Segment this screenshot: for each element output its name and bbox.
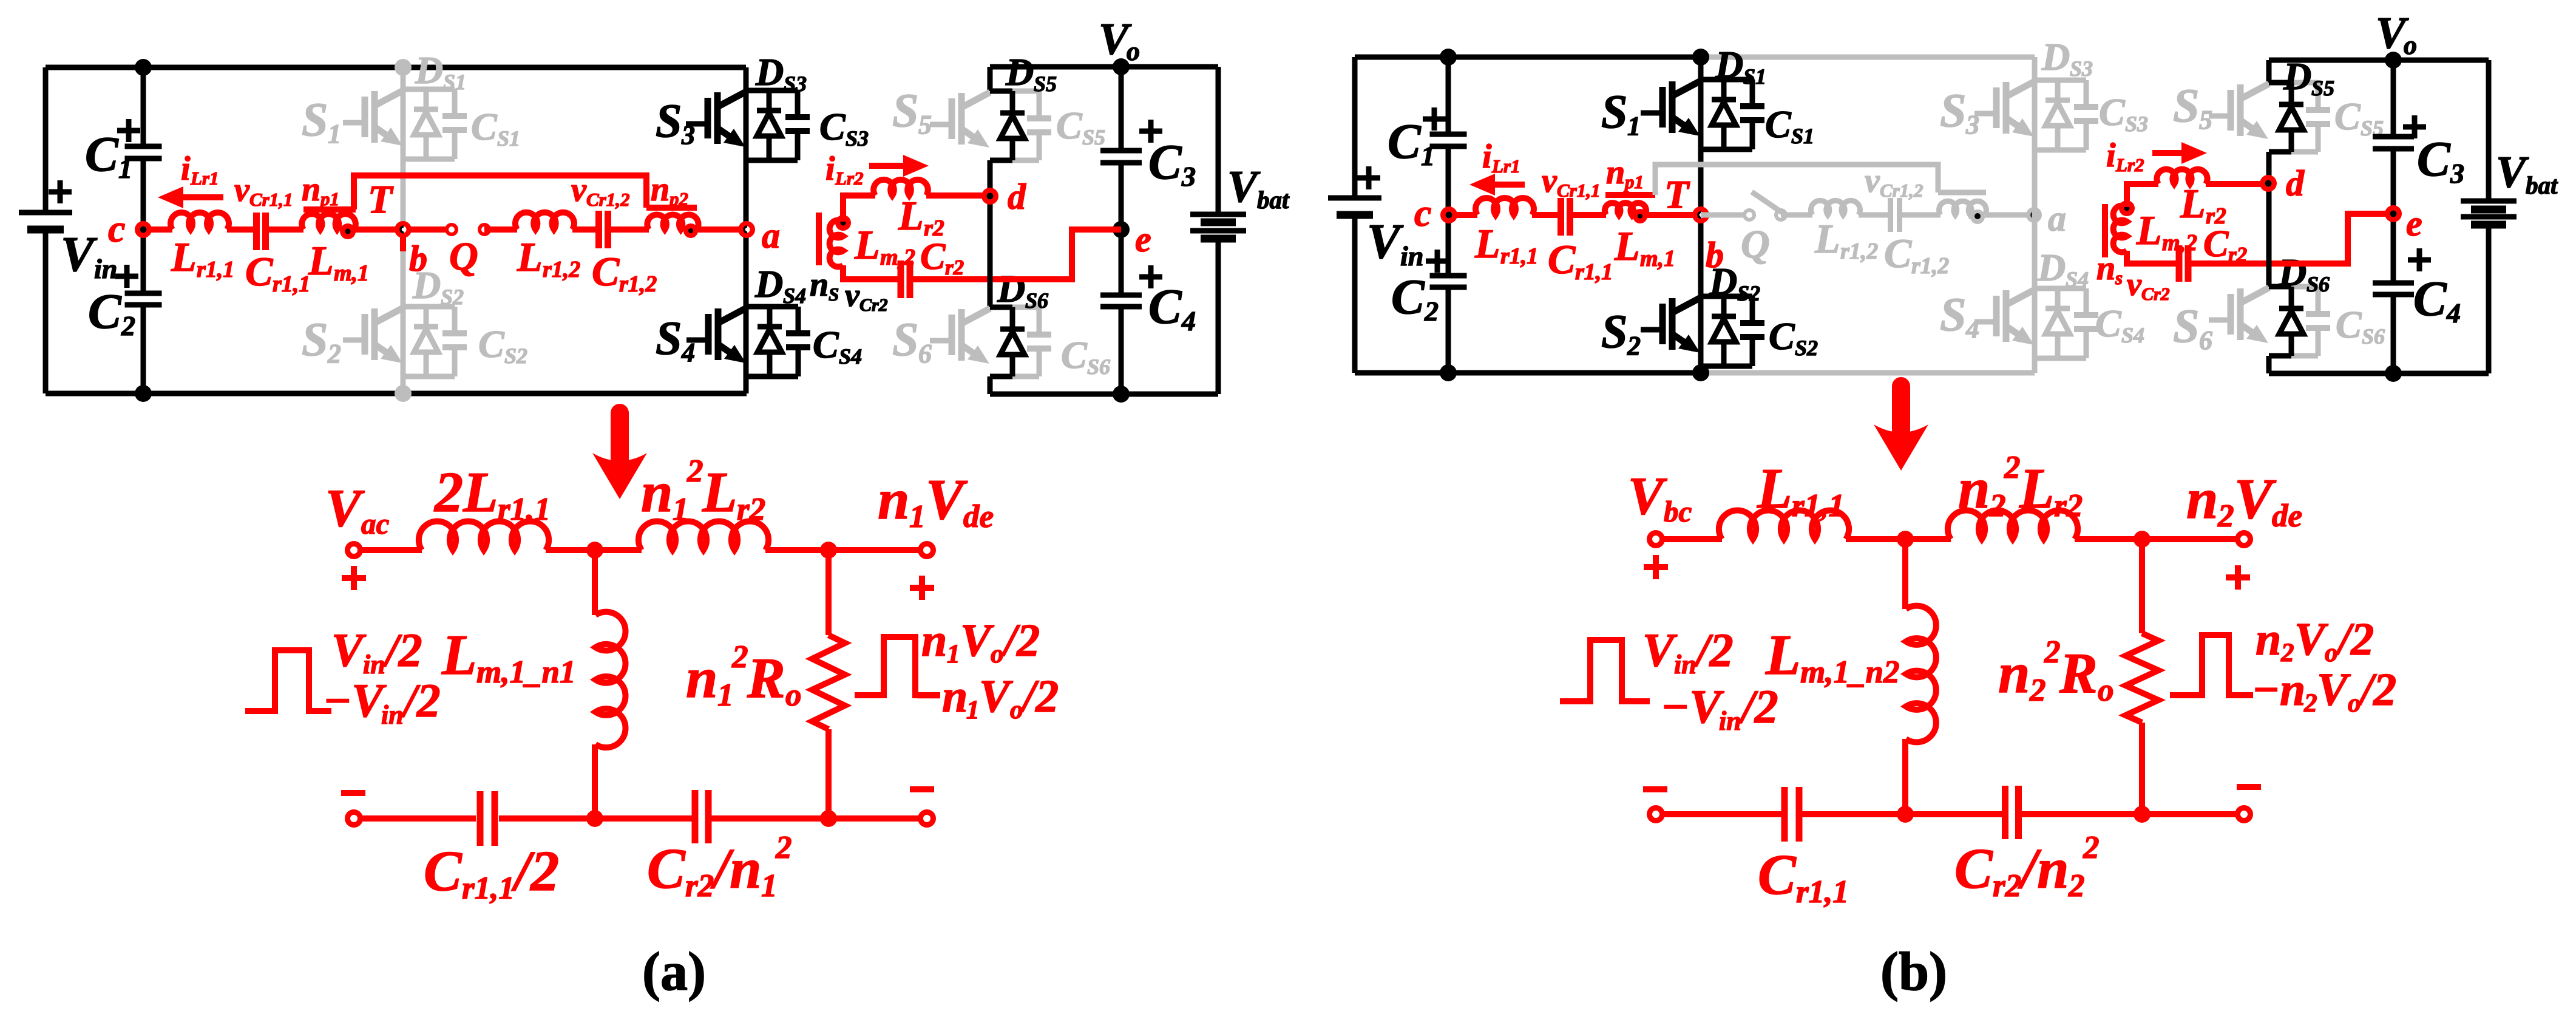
svg-text:in: in <box>1400 240 1423 271</box>
svg-text:r1,2: r1,2 <box>1911 253 1949 279</box>
svg-text:C: C <box>1765 103 1792 146</box>
svg-text:S: S <box>302 313 328 366</box>
svg-text:5: 5 <box>2199 105 2212 135</box>
svg-text:3: 3 <box>681 120 695 150</box>
inductor n1^2 Lr2 eq (a) <box>639 521 768 550</box>
svg-text:S3: S3 <box>2070 56 2093 81</box>
gray leg S1/S2 (a) <box>401 67 406 393</box>
switch Q open gray (b) <box>1743 208 1756 222</box>
svg-text:r1,1: r1,1 <box>462 871 515 906</box>
svg-text:V: V <box>1227 162 1261 212</box>
ring bottom right eq (b) <box>2235 805 2253 823</box>
switch S3 gray (b) <box>2035 78 2086 83</box>
battery Vin (a) <box>19 210 72 216</box>
svg-text:C: C <box>813 323 839 366</box>
svg-text:/n: /n <box>710 837 761 900</box>
svg-text:Cr2: Cr2 <box>2141 284 2170 304</box>
svg-text:in: in <box>94 253 117 284</box>
svg-text:/n: /n <box>2018 837 2069 900</box>
capacitor Cr1,2 gray (b) <box>1891 198 1900 232</box>
wire <box>572 226 599 233</box>
capacitor C1 (a) <box>125 146 162 158</box>
label C1 + sign <box>117 119 140 142</box>
switch S3 with snubber (a) <box>746 88 798 94</box>
svg-text:C: C <box>647 837 686 900</box>
wire: S5/S6 leg overpaint at red crossing (b) <box>2266 250 2272 277</box>
plus/minus signs eq (a) <box>342 566 366 590</box>
inductor Lm,1_n2 eq (b) <box>1902 539 1908 609</box>
wire <box>265 226 303 233</box>
resistor n2^2 Ro eq (b) <box>2139 539 2145 633</box>
svg-text:S4: S4 <box>783 284 806 308</box>
svg-text:S2: S2 <box>504 344 527 368</box>
svg-text:L: L <box>517 234 543 280</box>
svg-text:r2: r2 <box>737 492 765 527</box>
svg-text:4: 4 <box>1965 314 1979 344</box>
svg-text:n: n <box>2096 250 2115 287</box>
svg-text:4: 4 <box>1181 305 1196 336</box>
capacitor Cr2/n1^2 eq (a) <box>695 790 708 843</box>
svg-text:R: R <box>2059 642 2098 705</box>
capacitor Cr2 (a) <box>901 260 910 298</box>
svg-text:C: C <box>88 284 122 339</box>
wire: bottom rail black (b) <box>1355 370 1703 376</box>
np1 underline bar <box>303 206 356 213</box>
svg-text:/2: /2 <box>382 624 422 676</box>
svg-text:S1: S1 <box>1791 124 1814 148</box>
svg-text:V: V <box>979 671 1013 722</box>
svg-text:D: D <box>2037 246 2066 289</box>
wire: capacitor branch C1/C2 (a) <box>141 67 146 146</box>
svg-text:1: 1 <box>673 492 689 527</box>
label C3 plus (b) <box>2403 115 2426 138</box>
svg-text:D: D <box>997 267 1025 310</box>
svg-text:p2: p2 <box>668 188 688 209</box>
svg-text:/2: /2 <box>1020 671 1059 722</box>
svg-text:b: b <box>409 239 427 279</box>
svg-text:S: S <box>1601 85 1627 138</box>
core bar (b) <box>2102 204 2108 257</box>
svg-text:Cr1,1: Cr1,1 <box>249 189 293 210</box>
inductor Lm,1_n1 vertical eq (a) <box>592 550 598 615</box>
svg-text:S3: S3 <box>2125 112 2148 136</box>
inductor 2Lr1,1 eq (a) <box>419 521 549 550</box>
svg-text:V: V <box>331 624 367 676</box>
bottom rail eq (b) <box>1656 811 1785 817</box>
wire top rail eq (a) <box>354 547 422 553</box>
svg-text:Q: Q <box>1741 222 1770 267</box>
svg-text:D: D <box>2041 35 2070 78</box>
svg-text:ac: ac <box>361 507 390 540</box>
svg-text:S: S <box>656 311 682 364</box>
ring n2Vde <box>2235 530 2253 548</box>
big red arrow (a) <box>611 413 629 459</box>
svg-text:L: L <box>171 234 197 280</box>
svg-text:C: C <box>1388 114 1422 169</box>
svg-text:r2: r2 <box>1993 868 2021 903</box>
svg-text:S2: S2 <box>1737 281 1760 305</box>
switch S4 with snubber (a) <box>747 304 798 310</box>
svg-text:bat: bat <box>1257 186 1290 214</box>
wire coil bottom to Cr2 (b) <box>2127 251 2180 264</box>
label C4 plus <box>1139 265 1162 288</box>
svg-text:de: de <box>2272 498 2302 534</box>
capacitor Cr2/n2^2 eq (b) <box>2005 786 2019 839</box>
svg-text:L: L <box>2019 457 2054 520</box>
svg-text:1: 1 <box>966 696 980 724</box>
svg-text:(a): (a) <box>642 942 706 1002</box>
node a ring gray (b) <box>2026 207 2042 223</box>
svg-text:r1,1: r1,1 <box>1796 874 1849 910</box>
svg-text:−V: −V <box>323 674 387 727</box>
svg-text:/2: /2 <box>1738 680 1778 733</box>
svg-text:V: V <box>960 615 994 666</box>
svg-text:2: 2 <box>1424 296 1439 327</box>
svg-text:2: 2 <box>775 830 792 865</box>
svg-text:4: 4 <box>681 338 695 367</box>
svg-text:2: 2 <box>1627 331 1641 361</box>
svg-text:S2: S2 <box>1795 336 1818 360</box>
svg-text:S4: S4 <box>2121 323 2144 347</box>
svg-text:o: o <box>2348 689 2361 718</box>
svg-text:L: L <box>854 222 880 268</box>
svg-text:r1,2: r1,2 <box>1840 239 1878 264</box>
svg-text:r1,1: r1,1 <box>1575 259 1613 285</box>
node a ring <box>738 221 755 238</box>
svg-text:S6: S6 <box>1087 355 1110 379</box>
node c ring <box>135 221 152 238</box>
node d ring (a) <box>981 188 998 205</box>
svg-text:V: V <box>926 468 968 531</box>
svg-text:v: v <box>234 171 250 209</box>
svg-text:D: D <box>754 262 783 305</box>
svg-text:3: 3 <box>1181 161 1196 192</box>
svg-text:L: L <box>308 237 334 284</box>
inductor n2^2 Lr2 eq (b) <box>1948 510 2078 539</box>
big red arrow (b) <box>1892 386 1910 430</box>
svg-text:/2: /2 <box>401 674 441 727</box>
ring n1Vde <box>918 541 936 559</box>
svg-text:2: 2 <box>2004 450 2021 485</box>
svg-text:L: L <box>2136 207 2162 253</box>
np2 dot (b) <box>1970 209 1985 224</box>
svg-text:n: n <box>302 171 320 208</box>
wire np1 to node b <box>354 226 403 233</box>
svg-text:D: D <box>1715 43 1743 86</box>
svg-text:/2: /2 <box>2357 664 2396 715</box>
svg-text:Q: Q <box>449 234 478 279</box>
bottom rail eq (a) <box>354 815 476 822</box>
svg-text:1: 1 <box>947 640 960 669</box>
winding np2 polarity dot <box>683 223 698 238</box>
svg-text:1: 1 <box>1421 140 1435 171</box>
svg-text:6: 6 <box>2199 325 2212 355</box>
svg-text:1: 1 <box>717 678 734 713</box>
svg-text:6: 6 <box>918 339 932 369</box>
svg-text:S6: S6 <box>2362 324 2385 349</box>
switch S4 gray (b) <box>2035 286 2086 291</box>
wire node b to switch Q <box>403 226 452 233</box>
svg-text:C: C <box>592 248 620 294</box>
svg-text:r1,1: r1,1 <box>498 492 551 527</box>
svg-text:a: a <box>762 216 780 256</box>
svg-text:o: o <box>1010 696 1023 724</box>
svg-text:n: n <box>1606 154 1625 191</box>
junction dot Vo <box>1113 58 1130 75</box>
svg-text:s: s <box>2115 267 2123 288</box>
svg-text:C: C <box>2417 131 2451 186</box>
switch S2 with snubber (b) <box>1701 294 1752 299</box>
wire: secondary top rail (b) <box>2269 58 2489 63</box>
square wave n2Vo (b) <box>2170 635 2253 695</box>
svg-text:/2: /2 <box>511 840 559 903</box>
inductor Lr1,1 eq (b) <box>1719 510 1849 539</box>
svg-text:Lr1: Lr1 <box>1491 155 1520 177</box>
svg-text:C: C <box>1954 837 1993 900</box>
svg-text:b: b <box>1706 235 1724 275</box>
gray link and middle branch (b) <box>1655 165 1938 195</box>
junction dot bottom <box>1113 386 1130 403</box>
svg-text:n: n <box>878 468 909 531</box>
svg-text:S3: S3 <box>784 72 807 96</box>
svg-text:v: v <box>1542 162 1557 200</box>
wire Cr2 to node e (b) <box>2188 214 2393 264</box>
node 2 dot eq (a) <box>820 542 837 559</box>
svg-text:(b): (b) <box>1880 942 1947 1002</box>
svg-text:r2: r2 <box>2054 488 2083 523</box>
black leg S3/S4 (a) <box>744 67 749 393</box>
svg-text:in: in <box>1719 706 1741 736</box>
wire: left rail upper (a) <box>43 67 49 213</box>
svg-text:Lr2: Lr2 <box>835 168 864 189</box>
svg-text:T: T <box>1664 172 1690 217</box>
svg-text:m,1: m,1 <box>334 260 369 286</box>
svg-text:i: i <box>181 150 191 188</box>
svg-text:r2: r2 <box>2228 243 2247 267</box>
svg-text:n: n <box>686 647 717 710</box>
winding np2 (a) <box>647 214 698 230</box>
inductor Lr2 (a) <box>873 180 928 196</box>
wire: bottom rail gray (b) <box>1703 370 2035 376</box>
label C1 + (b) <box>1423 107 1446 131</box>
svg-text:C: C <box>2203 223 2229 265</box>
wire: top rail gray (b) <box>1701 55 2035 60</box>
np2 underline bar <box>646 205 697 211</box>
svg-text:R: R <box>747 647 785 710</box>
svg-text:o: o <box>991 640 1004 669</box>
plus/minus eq (b) <box>1644 555 1668 579</box>
svg-text:m,1: m,1 <box>1640 246 1675 271</box>
red top link wire T to np2 (a) <box>354 175 646 209</box>
svg-text:S: S <box>1601 305 1627 358</box>
svg-text:1: 1 <box>328 119 341 149</box>
svg-text:C: C <box>920 236 946 277</box>
svg-text:1: 1 <box>909 499 926 534</box>
svg-text:/2: /2 <box>2335 614 2374 665</box>
svg-text:r1,1: r1,1 <box>1500 243 1538 269</box>
svg-text:C: C <box>1056 104 1083 147</box>
node b ring (b) <box>1692 206 1709 223</box>
svg-text:L: L <box>1814 216 1840 262</box>
node dots bottom eq (a) <box>586 810 603 827</box>
svg-text:1: 1 <box>1627 111 1641 141</box>
ring bottom left eq (b) <box>1647 805 1665 823</box>
svg-text:e: e <box>2406 203 2422 243</box>
svg-text:i: i <box>1482 138 1492 175</box>
svg-text:S5: S5 <box>1034 72 1057 96</box>
svg-text:C: C <box>478 322 505 366</box>
winding np1 / Lm,1 (b) <box>1605 203 1646 215</box>
svg-text:2: 2 <box>2029 673 2046 708</box>
svg-text:L: L <box>702 461 737 524</box>
svg-text:C: C <box>85 126 119 182</box>
svg-text:C: C <box>1061 333 1088 376</box>
svg-text:2: 2 <box>2083 830 2100 865</box>
svg-text:n: n <box>921 615 947 666</box>
wire Q to Lr1,2 gray <box>1781 213 1812 218</box>
node 1 dot eq (b) <box>1897 531 1914 548</box>
wire: top rail (a) <box>46 65 746 70</box>
svg-text:v: v <box>2127 266 2142 302</box>
polarity dot secondary (a) <box>835 215 851 231</box>
svg-text:1: 1 <box>118 153 132 184</box>
svg-text:S: S <box>892 84 918 137</box>
inductor Lr2 (b) <box>2157 169 2207 184</box>
svg-text:C: C <box>2095 302 2122 345</box>
label C3 plus <box>1139 120 1162 143</box>
svg-text:r2: r2 <box>685 868 714 903</box>
svg-text:S: S <box>892 313 918 366</box>
svg-text:n: n <box>651 171 669 208</box>
wire: secondary top rail (a) <box>990 64 1218 70</box>
svg-text:C: C <box>1391 269 1425 324</box>
capacitor Cr1,1 eq (b) <box>1785 787 1799 842</box>
ring Vbc <box>1647 530 1665 548</box>
svg-text:c: c <box>1414 191 1431 234</box>
svg-text:−V: −V <box>1661 680 1724 733</box>
svg-text:−n: −n <box>914 671 968 722</box>
svg-text:de: de <box>963 499 994 534</box>
svg-text:Cr2: Cr2 <box>859 295 888 315</box>
svg-text:T: T <box>368 177 394 222</box>
switch S1 with snubber (b) <box>1701 77 1752 83</box>
square wave Vin (a) <box>245 650 331 711</box>
svg-text:S5: S5 <box>1082 125 1105 149</box>
wire <box>608 226 649 233</box>
ring Vac <box>345 541 363 559</box>
svg-text:2: 2 <box>2280 639 2294 667</box>
svg-text:o: o <box>785 678 802 713</box>
node dots bottom eq (b) <box>1897 806 1914 823</box>
svg-text:S1: S1 <box>497 126 520 151</box>
gray leg S3/S4 (b) <box>2032 57 2038 373</box>
switch S2 gray with snubber DS2 CS2 (a) <box>403 304 455 310</box>
svg-text:4: 4 <box>2446 298 2461 328</box>
svg-text:V: V <box>2317 664 2351 715</box>
svg-text:2: 2 <box>2044 635 2061 670</box>
wire: S5/S6 leg overpaint at red crossing (a) <box>988 266 993 293</box>
node c ring (b) <box>1440 206 1457 223</box>
svg-text:/2: /2 <box>1001 615 1040 666</box>
current arrow iLr2 (a) <box>869 163 903 169</box>
node 2 dot eq (b) <box>2134 531 2151 548</box>
rectifier leg S5/S6 (a) <box>988 67 993 91</box>
svg-text:V: V <box>325 479 365 538</box>
junction dot top of C1 branch <box>135 59 152 76</box>
svg-text:5: 5 <box>918 110 932 140</box>
svg-text:e: e <box>1135 219 1151 259</box>
capacitor Cr1,2 (a) <box>599 211 608 248</box>
ring bottom right eq (a) <box>918 809 936 828</box>
svg-text:n: n <box>1958 457 1990 520</box>
svg-text:2: 2 <box>2217 498 2234 534</box>
svg-text:i: i <box>825 150 835 188</box>
svg-text:C: C <box>2334 95 2361 138</box>
svg-text:S1: S1 <box>1743 64 1766 89</box>
svg-text:v: v <box>571 171 587 209</box>
svg-text:S6: S6 <box>1025 288 1048 313</box>
svg-text:n: n <box>2186 468 2218 531</box>
svg-text:C: C <box>1884 230 1912 276</box>
inductor Lm,1 / winding np1 (a) <box>302 214 356 230</box>
svg-text:d: d <box>1008 177 1026 217</box>
svg-text:bat: bat <box>2526 171 2558 199</box>
node b ring <box>395 221 412 238</box>
red resonant path (b) <box>1448 212 1477 218</box>
svg-text:S5: S5 <box>2311 76 2334 100</box>
svg-text:o: o <box>2098 673 2114 708</box>
capacitor C2 (a) <box>125 293 162 305</box>
svg-text:/2: /2 <box>1693 624 1734 676</box>
np2 underline gray (b) <box>1938 190 1986 196</box>
svg-text:v: v <box>1865 162 1880 200</box>
svg-text:bc: bc <box>1664 495 1692 528</box>
capacitor branch C1/C2 (b) <box>1446 57 1451 134</box>
svg-text:C: C <box>1148 279 1182 334</box>
red stub below node b <box>400 230 406 251</box>
svg-text:V: V <box>1642 624 1678 676</box>
svg-text:L: L <box>898 192 924 239</box>
black leg S1/S2 (b) <box>1698 57 1704 373</box>
svg-text:V: V <box>1367 214 1404 269</box>
svg-text:o: o <box>2325 639 2338 667</box>
svg-text:L: L <box>441 624 476 687</box>
capacitor Cr1,1 (a) <box>257 213 266 250</box>
inductor Lr1,2 (a) <box>515 213 574 230</box>
svg-text:3: 3 <box>1965 110 1979 140</box>
svg-text:in: in <box>1674 650 1696 679</box>
svg-text:C: C <box>424 840 463 903</box>
svg-text:Lr1: Lr1 <box>190 168 219 189</box>
svg-text:S2: S2 <box>441 285 464 309</box>
wire coil top to Lr2 <box>843 196 875 222</box>
svg-text:m,1_n1: m,1_n1 <box>476 655 575 690</box>
svg-text:r1,1: r1,1 <box>273 271 310 297</box>
rectifier leg S5/S6 (b) <box>2266 60 2272 83</box>
svg-text:n: n <box>1998 642 2030 705</box>
junction dot bottom of C2 branch <box>135 385 152 402</box>
svg-text:C: C <box>1148 134 1182 189</box>
current arrow iLr2 (b) <box>2152 150 2181 156</box>
svg-text:m,2: m,2 <box>880 245 915 270</box>
svg-text:Cr1,1: Cr1,1 <box>1557 180 1601 201</box>
svg-text:L: L <box>2180 180 2206 226</box>
wire: secondary bottom rail (b) <box>2269 371 2489 376</box>
wire: left rail upper (b) <box>1352 57 1358 198</box>
capacitor Cr1,1 (b) <box>1561 198 1570 236</box>
svg-text:2: 2 <box>2303 689 2317 718</box>
svg-text:d: d <box>2286 163 2305 203</box>
